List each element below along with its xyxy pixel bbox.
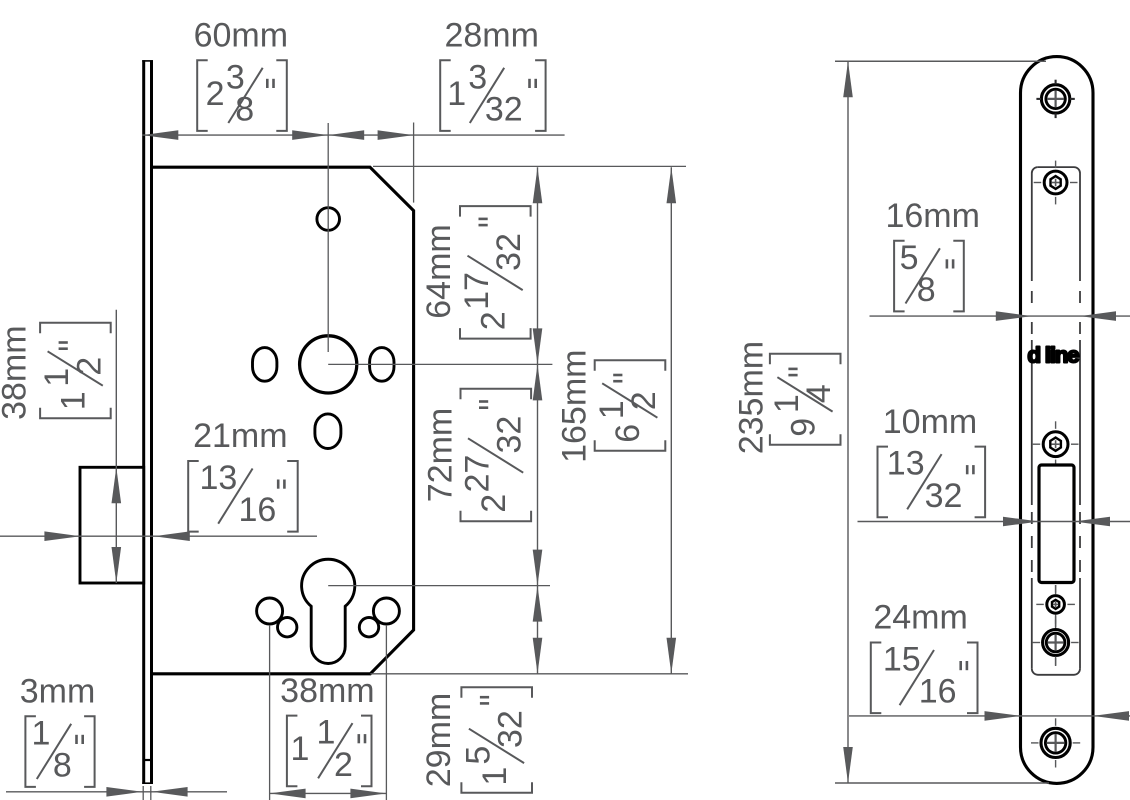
screw strike upper [1055, 161, 1057, 169]
cylinder fixing hole left large [257, 598, 283, 624]
svg-text:1: 1 [55, 391, 93, 410]
svg-text:1: 1 [476, 767, 514, 786]
svg-text:60mm: 60mm [194, 17, 288, 55]
screw top (countersunk) [1041, 85, 1069, 113]
svg-text:32: 32 [490, 233, 528, 271]
svg-text:13: 13 [200, 459, 238, 497]
dimension line 3mm faceplate thickness [6, 791, 227, 793]
right oval hole [370, 348, 394, 382]
svg-text:10mm: 10mm [883, 403, 977, 441]
dimension line 38mm latch height [115, 310, 117, 583]
svg-text:32: 32 [925, 477, 963, 515]
inner recess rounded rect [1032, 167, 1038, 281]
label 3mm [1/8"] [25, 716, 36, 787]
svg-text:38mm: 38mm [280, 672, 374, 710]
label 235mm [9 1/4"] rotated [733, 341, 841, 454]
vertical centerline through top hole [327, 123, 329, 352]
svg-text:8: 8 [53, 747, 72, 785]
svg-text:32: 32 [491, 416, 529, 454]
label 29mm [1 5/32"] rotated [420, 687, 532, 792]
svg-text:15: 15 [883, 641, 921, 679]
extension line 235mm top [835, 60, 1046, 62]
cylinder fixing hole right small [359, 618, 378, 637]
label 165mm [6 1/2"] rotated [556, 350, 666, 463]
centerline dash below lower screw [1055, 657, 1057, 667]
left oval hole [253, 348, 277, 382]
dimension line 38mm bottom [270, 792, 387, 794]
svg-text:5: 5 [900, 239, 919, 277]
svg-text:27: 27 [459, 455, 497, 493]
svg-text:24mm: 24mm [873, 599, 967, 637]
svg-text:2: 2 [475, 311, 513, 330]
faceplate inner tick near bottom [144, 759, 150, 761]
svg-text:2: 2 [206, 75, 225, 113]
dimension line 165mm [670, 167, 672, 674]
label 21mm [13/16"] [188, 461, 199, 532]
svg-text:38mm: 38mm [0, 325, 34, 419]
extension ticks below faceplate [142, 786, 144, 800]
svg-text:8: 8 [917, 271, 936, 309]
centerline dash between screws [1055, 615, 1057, 629]
top fixing hole [317, 208, 340, 231]
svg-text:165mm: 165mm [556, 350, 594, 463]
screw small below opening [1055, 585, 1057, 593]
bottom edge extension line [370, 673, 688, 675]
extension line right edge top (28mm) [413, 123, 415, 203]
faceplate side view (thin vertical plate) [142, 60, 153, 784]
dimension line 24mm [849, 715, 1130, 717]
label 38mm [1 1/2"] rotated left [0, 323, 111, 420]
screw above latch opening [1055, 421, 1057, 429]
svg-text:16: 16 [919, 673, 957, 711]
label 28mm [1 3/32"] [440, 60, 451, 131]
follower centerline extension [328, 363, 552, 365]
latch opening [1039, 465, 1074, 583]
label 64mm [2 17/32"] rotated [420, 206, 531, 339]
dimension line 21mm latch projection [0, 535, 317, 537]
extension line 235mm bottom [835, 782, 1049, 784]
svg-text:28mm: 28mm [444, 17, 538, 55]
svg-text:2: 2 [334, 746, 353, 784]
cylinder centerline extension [328, 585, 550, 587]
euro cylinder profile hole [302, 559, 355, 663]
label 72mm [2 27/32"] rotated [422, 389, 532, 522]
small oval hole below follower [315, 414, 341, 449]
svg-text:6: 6 [609, 424, 647, 443]
svg-text:64mm: 64mm [420, 224, 458, 318]
faceplate front view (stadium shape) [1021, 57, 1094, 784]
dimension line top (60mm and 28mm) [142, 134, 564, 136]
dimension line 29mm [537, 586, 539, 674]
svg-text:16mm: 16mm [885, 197, 979, 235]
dimension line 10mm [858, 521, 1130, 523]
svg-text:235mm: 235mm [733, 341, 771, 454]
extension lines 38mm bottom [269, 625, 271, 800]
svg-text:2: 2 [70, 357, 108, 376]
label 24mm [15/16"] [871, 643, 882, 714]
svg-text:16: 16 [239, 491, 277, 529]
follower hole (spindle) [300, 336, 357, 393]
screw bottom (countersunk) [1041, 728, 1070, 757]
label 38mm [1 1/2"] bottom [287, 716, 298, 787]
label 16mm [5/8"] [894, 241, 905, 312]
screw lower (cross head) [1043, 630, 1069, 656]
svg-text:1: 1 [447, 75, 466, 113]
svg-text:29mm: 29mm [420, 693, 458, 787]
svg-text:9: 9 [784, 418, 822, 437]
dimension line 64mm [537, 167, 539, 364]
svg-text:32: 32 [492, 710, 530, 748]
label 10mm [13/32"] [878, 447, 889, 518]
svg-text:1: 1 [317, 714, 336, 752]
lock case body outline [152, 167, 414, 674]
svg-text:1: 1 [291, 730, 310, 768]
centerline dash below opening [1055, 585, 1057, 594]
label 60mm [2 3/8"] [197, 60, 208, 131]
svg-text:72mm: 72mm [422, 408, 460, 502]
cylinder fixing hole right large [373, 598, 399, 624]
svg-text:21mm: 21mm [193, 417, 287, 455]
svg-text:17: 17 [458, 272, 496, 310]
svg-text:d line: d line [1027, 343, 1079, 368]
dimension line 72mm [537, 364, 539, 585]
svg-text:4: 4 [800, 384, 838, 403]
cylinder fixing hole left small [278, 618, 297, 637]
svg-text:2: 2 [475, 494, 513, 513]
dimension line 16mm [870, 315, 1130, 317]
extension line top edge to right (64/165mm) [373, 165, 686, 167]
svg-text:1: 1 [32, 714, 51, 752]
latch bolt (protruding box at left) [80, 467, 144, 583]
svg-text:13: 13 [887, 445, 925, 483]
svg-text:32: 32 [485, 91, 523, 129]
dimension line 235mm [847, 61, 849, 783]
svg-text:3mm: 3mm [20, 673, 96, 711]
